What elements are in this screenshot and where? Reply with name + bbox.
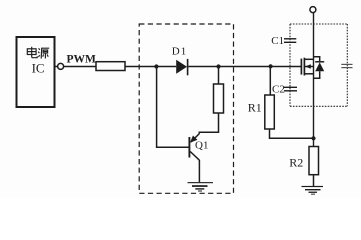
svg-text:IC: IC	[32, 60, 45, 75]
wire junction down to pull resistor	[218, 67, 220, 85]
transistor Q1 base bar	[188, 137, 190, 158]
wire diode D1 cathode to gate bar	[188, 66, 301, 68]
wire R1 bottom to source junction	[270, 129, 314, 138]
wire Q1 collector to ground	[198, 160, 200, 182]
label 电 (power) glyph	[27, 47, 37, 58]
MOSFET body arrow stub	[304, 66, 313, 68]
dotted box right edge	[346, 24, 348, 106]
wire junction down to Q1 base corner	[157, 67, 189, 148]
dotted box left edge	[289, 24, 291, 106]
dashed box driver stage	[139, 24, 233, 193]
body diode triangle	[315, 62, 324, 71]
MOSFET channel bar	[303, 58, 305, 76]
svg-text:Q1: Q1	[195, 140, 208, 152]
ground R2	[302, 186, 324, 195]
wire series resistor to diode D1 anode	[125, 66, 176, 68]
transistor Q1 collector	[190, 152, 199, 161]
svg-text:D1: D1	[172, 45, 187, 57]
body diode bottom connection	[314, 71, 320, 78]
MOSFET source stub	[304, 73, 313, 75]
resistor R1	[265, 95, 275, 129]
MOSFET gate bar	[300, 59, 302, 75]
body diode top connection	[314, 57, 320, 61]
svg-text:R1: R1	[248, 101, 262, 115]
resistor series gate (unlabeled)	[96, 62, 125, 71]
transistor Q1 emitter with arrow (PNP)	[191, 134, 199, 142]
label 源 (source) glyph	[38, 48, 49, 58]
wire PWM terminal to series resistor	[64, 66, 96, 68]
dotted box bottom edge	[290, 105, 347, 107]
MOSFET drain stub	[304, 58, 313, 60]
resistor R2	[309, 147, 319, 175]
diode D1	[176, 60, 187, 74]
wire pull resistor bottom to Q1 emitter	[199, 113, 218, 134]
junction node source/R2	[311, 136, 315, 140]
IC box 电源IC	[17, 37, 55, 107]
capacitor C1	[284, 39, 296, 43]
svg-text:PWM: PWM	[67, 53, 97, 65]
junction node base branch	[154, 64, 158, 68]
junction node R1 branch	[269, 64, 273, 68]
junction node pull resistor branch	[216, 64, 220, 68]
dotted box MOSFET model top edge	[290, 23, 347, 25]
wire R1 branch down	[269, 67, 271, 96]
body diode cathode bar	[315, 61, 324, 63]
resistor pull (unlabeled, above Q1)	[214, 84, 224, 113]
svg-text:C2: C2	[272, 84, 285, 96]
terminal PWM output circle	[55, 66, 58, 68]
ground Q1	[188, 182, 214, 191]
terminal drain circle (top)	[310, 7, 316, 13]
wire R2 bottom to ground	[313, 175, 315, 187]
capacitor C2	[284, 87, 297, 91]
svg-text:C1: C1	[271, 35, 284, 47]
wire drain terminal down through MOSFET to R2	[313, 13, 315, 147]
capacitor Cds (unlabeled, gray)	[341, 64, 352, 67]
svg-text:R2: R2	[289, 155, 303, 169]
